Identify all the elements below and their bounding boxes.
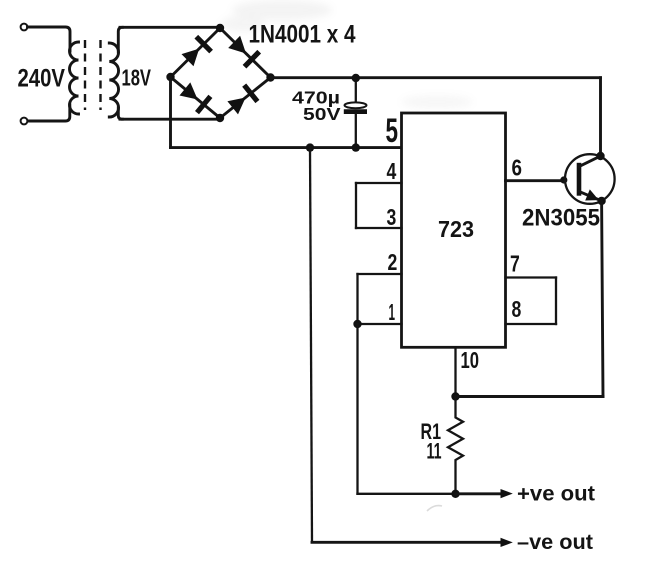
- terminal top-left: [21, 24, 28, 31]
- svg-text:10: 10: [461, 347, 480, 373]
- transformer core dashed lines: [84, 40, 86, 110]
- svg-text:2N3055: 2N3055: [522, 205, 600, 232]
- svg-text:723: 723: [438, 216, 474, 242]
- pin 2 wire: [358, 273, 402, 275]
- wire: secondary top lead: [118, 27, 122, 52]
- wire: secondary top to bridge top node: [120, 26, 220, 29]
- capacitor C1 lead bottom: [355, 114, 357, 148]
- diode D4: [227, 98, 245, 115]
- svg-text:8: 8: [512, 296, 522, 322]
- node: bridge right: [266, 73, 274, 81]
- wire: collector drop: [599, 78, 602, 156]
- pin 10 wire: [454, 347, 456, 396]
- diode D3: [180, 82, 198, 99]
- wire: secondary bottom lead: [118, 108, 122, 119]
- node: bridge bottom: [216, 114, 224, 122]
- wire: loop pins 2-1: [356, 274, 358, 324]
- resistor R1: [448, 397, 463, 494]
- transistor Q1 collector diagonal: [579, 156, 601, 167]
- pin 8 wire: [506, 323, 557, 325]
- capacitor C1 top plate: [345, 102, 367, 108]
- svg-text:2: 2: [388, 249, 398, 275]
- scan smudge above IC: [401, 95, 473, 147]
- wire: -ve vertical: [310, 148, 312, 543]
- wire: +ve out horizontal: [456, 492, 502, 495]
- svg-text:11: 11: [427, 439, 442, 464]
- bridge edge left-bottom: [171, 77, 221, 118]
- wire: emitter down: [602, 201, 603, 397]
- wire: R1 top junction to emitter line: [456, 395, 604, 398]
- IC U1 723 body: [402, 113, 506, 347]
- pin 6 wire to transistor base: [506, 179, 564, 182]
- arrow -ve out: [501, 538, 513, 547]
- svg-text:1N4001 x 4: 1N4001 x 4: [249, 21, 356, 49]
- wire: loop pins 7-8: [555, 278, 557, 325]
- transformer secondary winding: [109, 43, 118, 117]
- wire: top terminal to primary winding: [28, 27, 71, 51]
- node: emitter junction: [597, 197, 605, 205]
- pin 1 wire: [358, 323, 402, 325]
- svg-text:4: 4: [387, 158, 397, 184]
- wire: positive rail bridge right to collector corner: [271, 76, 601, 79]
- pin 3 wire: [356, 227, 402, 229]
- wire: primary winding to bottom terminal: [28, 105, 70, 121]
- svg-text:7: 7: [510, 251, 520, 277]
- bridge edge left-top: [171, 28, 221, 77]
- arrow +ve out: [501, 489, 513, 498]
- svg-text:18V: 18V: [122, 65, 152, 91]
- wire: secondary bottom to bridge bottom node: [120, 118, 219, 121]
- wire: bottom rail to IC pin5: [171, 146, 402, 149]
- svg-text:5: 5: [386, 112, 399, 150]
- scan scratch mark: [427, 506, 442, 511]
- capacitor C1 lead top: [355, 78, 357, 102]
- wire: +ve horizontal left part: [358, 493, 456, 495]
- svg-text:6: 6: [512, 155, 523, 181]
- pin 7 wire: [506, 276, 557, 278]
- node: cap bottom junction: [352, 143, 360, 151]
- wire: -ve out horizontal: [312, 541, 501, 544]
- svg-text:1: 1: [389, 299, 396, 325]
- transistor Q1 emitter diagonal: [579, 192, 602, 201]
- diode D2: [228, 36, 246, 54]
- node: collector junction: [596, 152, 604, 160]
- bridge edge top-right: [220, 28, 271, 78]
- node: +ve out junction: [451, 490, 459, 498]
- node: base junction: [560, 176, 567, 183]
- svg-text:240V: 240V: [18, 65, 66, 93]
- wire: negative drop from bridge left: [169, 77, 172, 148]
- capacitor C1 bottom plate: [344, 109, 367, 114]
- transistor Q1 emitter arrow: [585, 189, 599, 200]
- scan smudge top: [221, 0, 332, 32]
- node: negative rail junction to -ve out: [306, 143, 314, 151]
- svg-text:50V: 50V: [303, 104, 341, 124]
- transistor Q1 base bar: [577, 163, 582, 196]
- svg-text:+ve out: +ve out: [517, 482, 595, 506]
- transistor Q1 circle: [565, 154, 615, 204]
- transformer primary winding: [70, 42, 79, 114]
- svg-text:–ve out: –ve out: [517, 530, 593, 554]
- node: bridge left: [166, 73, 174, 81]
- wire: loop pins 4-3: [355, 183, 357, 228]
- diode D1: [182, 49, 200, 67]
- terminal bottom-left: [21, 118, 28, 125]
- bridge edge bottom-right: [220, 78, 271, 119]
- svg-text:3: 3: [387, 204, 397, 230]
- node: bridge top: [216, 24, 224, 32]
- node: R1 top junction: [451, 392, 459, 400]
- node: cap top junction: [352, 74, 360, 82]
- wire: pin1 junction down to +ve line: [356, 324, 358, 494]
- pin 4 wire: [356, 182, 402, 184]
- node: pin1 junction: [353, 320, 361, 328]
